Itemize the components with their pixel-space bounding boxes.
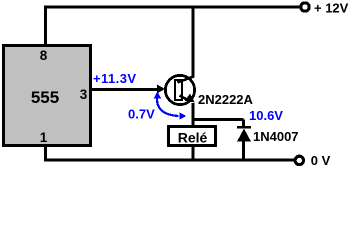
svg-text:0.7V: 0.7V [128,107,155,122]
terminal 0V [295,156,303,164]
wire top rail [44,6,300,9]
svg-text:10.6V: 10.6V [249,108,283,123]
wire emitter down to relay [192,103,195,126]
wire bottom rail [44,159,294,162]
svg-text:+ 12V: + 12V [314,1,349,16]
svg-text:Relé: Relé [178,130,208,146]
wire collector up to rail [192,7,195,78]
svg-text:1N4007: 1N4007 [253,129,299,144]
svg-text:+11.3V: +11.3V [93,71,137,86]
wire pin3 to transistor base [92,88,160,91]
svg-text:1: 1 [40,130,48,145]
transistor Q1 2N2222A [157,75,195,104]
wire pin1 down [44,147,47,160]
svg-text:0 V: 0 V [311,153,331,168]
terminal +12V [301,3,309,11]
wire diode top stub [242,120,245,128]
wire pin8 to top rail [44,7,47,45]
wire emitter node to diode [193,118,244,121]
Vbe arrow 0.7V [157,96,178,116]
IC U1 555 timer body [4,46,91,146]
diode D1 1N4007 [237,127,251,161]
svg-text:555: 555 [31,88,59,107]
svg-text:8: 8 [40,48,48,63]
svg-text:2N2222A: 2N2222A [198,92,254,107]
wire relay to bottom rail [192,147,195,160]
svg-text:3: 3 [80,87,88,102]
relay K1 [169,127,216,146]
